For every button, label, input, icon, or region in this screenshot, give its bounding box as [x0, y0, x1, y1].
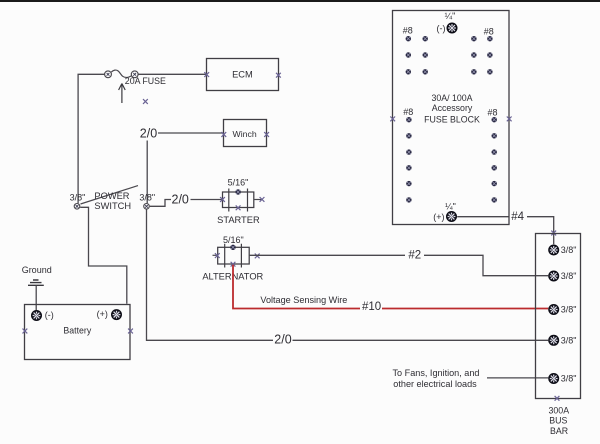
svg-text:3/8": 3/8"	[561, 305, 577, 315]
node x below fuse label	[143, 99, 148, 104]
node at starter left pin	[220, 197, 225, 202]
ground symbol	[28, 280, 44, 285]
svg-text:Ground: Ground	[22, 265, 52, 275]
svg-text:To Fans, Ignition, and: To Fans, Ignition, and	[393, 368, 480, 378]
top border bar	[0, 0, 600, 2]
wire: 2/0 switch down to bus bar	[147, 210, 274, 341]
svg-text:2/0: 2/0	[172, 193, 189, 207]
node at Winch right pin	[264, 132, 269, 137]
svg-text:Voltage Sensing Wire: Voltage Sensing Wire	[260, 295, 347, 305]
svg-text:5/16": 5/16"	[228, 178, 249, 188]
wire: fuse to left vertical down to power switch	[78, 74, 105, 203]
bus bar terminal 5	[548, 373, 559, 384]
node at Winch left pin	[221, 132, 226, 137]
ECM box U1	[207, 59, 279, 91]
wire: #2 alternator to bus bar	[249, 254, 405, 256]
wire: switch right to starter (2/0)	[150, 200, 171, 207]
svg-text:3/8": 3/8"	[561, 374, 577, 384]
svg-text:#8: #8	[484, 27, 494, 37]
starter solenoid	[223, 189, 263, 212]
svg-text:Battery: Battery	[63, 326, 91, 336]
svg-text:STARTER: STARTER	[217, 215, 260, 225]
node at alternator left pin	[215, 253, 220, 258]
svg-text:3/8": 3/8"	[561, 271, 577, 281]
svg-text:#8: #8	[403, 26, 413, 36]
svg-text:Winch: Winch	[233, 129, 257, 139]
wire: ground to battery negative	[35, 286, 37, 311]
fuse block positive terminal	[446, 211, 457, 222]
fuse block lower stud columns	[406, 117, 497, 203]
wire: 2/0 label down to power switch	[146, 141, 148, 204]
svg-text:ECM: ECM	[232, 70, 253, 80]
bus bar terminal 4	[548, 335, 559, 346]
svg-text:BAR: BAR	[550, 426, 568, 436]
svg-text:(+): (+)	[97, 309, 108, 319]
fuse block FB1	[393, 11, 510, 225]
svg-text:BUS: BUS	[549, 416, 567, 426]
fuse F1 20A	[105, 70, 139, 78]
svg-text:FUSE BLOCK: FUSE BLOCK	[424, 114, 480, 124]
svg-text:#4: #4	[511, 211, 524, 223]
svg-text:(-): (-)	[437, 23, 446, 33]
svg-text:¼": ¼"	[445, 11, 456, 21]
svg-text:Accessory: Accessory	[432, 103, 473, 113]
wire: switch left to battery positive	[80, 207, 127, 303]
fuse block negative terminal	[447, 23, 458, 34]
wire: #10 voltage sensing (red)	[233, 265, 360, 309]
wire: loads to bus bar	[487, 377, 548, 379]
svg-text:(-): (-)	[45, 310, 54, 320]
power switch S1	[74, 186, 149, 210]
svg-text:#8: #8	[487, 108, 497, 118]
arrow pointer to fuse	[119, 84, 126, 104]
battery positive terminal	[111, 309, 122, 320]
svg-text:3/8": 3/8"	[561, 335, 577, 345]
svg-text:other electrical loads: other electrical loads	[393, 379, 477, 389]
Winch box M1	[224, 120, 267, 147]
svg-text:¼": ¼"	[445, 202, 456, 212]
node at fuse block right edge	[507, 117, 512, 122]
node at starter bottom pin	[236, 205, 241, 210]
bus bar terminal 2	[548, 271, 559, 282]
node at alternator bottom pin	[231, 262, 236, 267]
svg-text:POWER: POWER	[94, 191, 129, 201]
fuse block top stud grid	[406, 36, 493, 75]
battery BT1	[25, 305, 131, 360]
node at battery left edge	[23, 329, 28, 334]
svg-text:#10: #10	[362, 301, 381, 313]
svg-text:#2: #2	[408, 250, 421, 262]
svg-text:2/0: 2/0	[140, 126, 157, 140]
battery negative terminal	[31, 310, 42, 321]
svg-text:3/8": 3/8"	[70, 192, 86, 202]
node at ECM right pin	[276, 73, 281, 78]
node at starter right stub	[260, 197, 265, 202]
node at bus bar bottom	[555, 396, 560, 401]
node at ECM left pin	[204, 72, 209, 77]
bus bar terminal 1	[548, 245, 559, 256]
node at fuse block left edge	[390, 117, 395, 122]
node at bus bar top entry	[551, 231, 556, 236]
node at alternator right pin	[255, 254, 260, 259]
node at battery right edge	[128, 329, 133, 334]
wire: #4 fuse block to bus bar	[457, 216, 509, 218]
svg-text:3/8": 3/8"	[561, 245, 577, 255]
svg-text:5/16": 5/16"	[223, 235, 244, 245]
svg-text:2/0: 2/0	[274, 332, 291, 346]
svg-text:SWITCH: SWITCH	[94, 201, 131, 211]
alternator G1	[213, 244, 250, 268]
svg-text:3/8": 3/8"	[139, 192, 155, 202]
bus bar terminal 3	[548, 304, 559, 315]
wire: fuse to ECM	[138, 73, 207, 75]
svg-text:300A: 300A	[549, 405, 570, 415]
bus bar BB1	[536, 234, 581, 399]
svg-text:(+): (+)	[433, 212, 444, 222]
svg-text:30A/ 100A: 30A/ 100A	[431, 93, 472, 103]
svg-text:20A FUSE: 20A FUSE	[125, 76, 166, 86]
svg-text:#8: #8	[403, 107, 413, 117]
wire: 2/0 to Winch	[158, 132, 224, 134]
